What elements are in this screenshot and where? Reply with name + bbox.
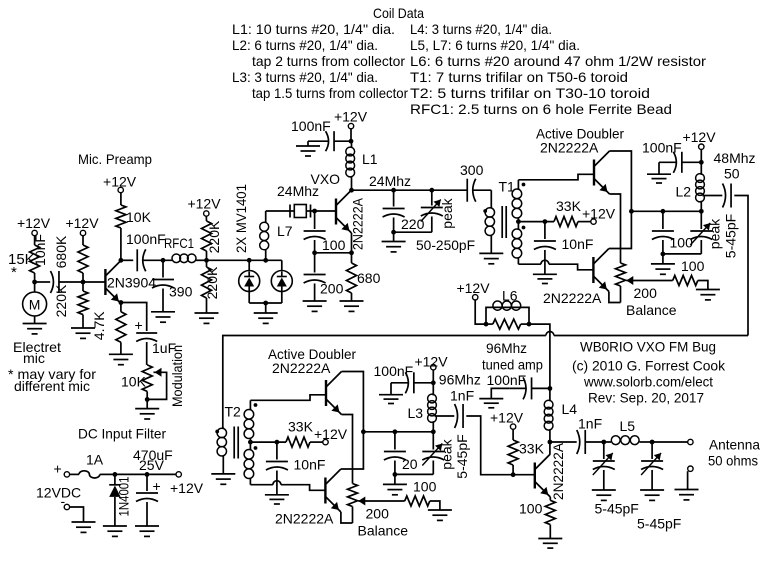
- label VXO: [311, 171, 341, 187]
- svg-text:10nF: 10nF: [562, 236, 594, 252]
- capacitor 470uF electrolytic: [136, 474, 161, 526]
- antenna terminal: [688, 439, 693, 444]
- resistor 680K: [53, 235, 88, 273]
- label 24Mhz crystal: [277, 183, 319, 199]
- label T1: [499, 179, 516, 195]
- wire + to fuse: [70, 473, 79, 475]
- node Q1 emitter: [119, 300, 124, 305]
- label Antenna 50 ohms: [708, 437, 760, 469]
- terminal DC input -: [61, 493, 70, 510]
- svg-text:tap 1.5 turns from collector: tap 1.5 turns from collector: [252, 85, 408, 101]
- power +12V terminal (680K): [65, 215, 99, 236]
- svg-text:peak: peak: [439, 197, 455, 228]
- inductor L4: [544, 388, 577, 442]
- node VXO base: [312, 209, 317, 214]
- resistor 47 ohm (L6 parallel): [486, 319, 529, 329]
- potentiometer 200 Balance (doubler 2): [348, 469, 358, 523]
- wire +12V to coil node (doubler 2): [432, 370, 434, 395]
- ground (200 cap): [303, 301, 327, 311]
- svg-text:+12V: +12V: [682, 129, 716, 145]
- pot wiper arrow (doubler 1): [626, 276, 672, 285]
- svg-text:(c) 2010 G. Forrest Cook: (c) 2010 G. Forrest Cook: [572, 358, 726, 374]
- svg-text:1nF: 1nF: [450, 388, 474, 404]
- svg-text:L2: L2: [676, 184, 692, 200]
- node VXO collector 24Mhz: [349, 188, 354, 193]
- note L2 winding data: [232, 37, 378, 53]
- node 24Mhz cap junction: [391, 188, 396, 193]
- capacitor 100nF (supply bypass) (doubler 1): [659, 152, 701, 174]
- svg-text:300: 300: [460, 162, 484, 178]
- wire 48Mhz to right edge: [734, 196, 748, 336]
- wire 220K to node: [206, 251, 208, 260]
- wire Q top emitter (doubler 2): [342, 415, 353, 470]
- svg-text:100nF: 100nF: [291, 118, 331, 134]
- label Balance (1): [626, 302, 677, 318]
- wire Q bottom emitter (doubler 1): [609, 292, 621, 303]
- svg-text:10nF: 10nF: [32, 234, 48, 266]
- node Q1 collector: [119, 258, 124, 263]
- wire 15K to mic node: [34, 273, 36, 282]
- label 96Mhz tuned amp: [482, 340, 543, 373]
- wire Q bottom emitter (doubler 2): [341, 512, 353, 523]
- note T1 winding data: [410, 69, 628, 85]
- wire collector bus (doubler 2): [363, 431, 433, 433]
- label 10K pot: [121, 374, 147, 390]
- svg-text:33K: 33K: [519, 441, 545, 457]
- svg-text:+: +: [135, 317, 143, 333]
- svg-text:220K: 220K: [206, 220, 222, 253]
- ground (amp emitter): [538, 539, 562, 549]
- svg-text:T2: T2: [225, 404, 242, 420]
- wire fuse to diode node: [100, 473, 115, 475]
- wire +12V to 220K: [205, 216, 207, 221]
- svg-text:L5, L7: 6 turns #20, 1/4" dia.: L5, L7: 6 turns #20, 1/4" dia.: [410, 37, 580, 53]
- wire to ground (varactors): [265, 303, 267, 313]
- wire to cap node: [115, 473, 147, 475]
- antenna ground terminal: [688, 466, 694, 490]
- label 100 output cap (1): [670, 235, 694, 251]
- svg-text:WB0RIO VXO FM Bug: WB0RIO VXO FM Bug: [580, 339, 716, 355]
- svg-text:+12V: +12V: [17, 215, 51, 231]
- svg-text:DC Input Filter: DC Input Filter: [78, 426, 166, 442]
- node diode junction: [113, 472, 118, 477]
- T primary phasing dot (doubler 1): [483, 209, 487, 213]
- svg-text:5-45pF: 5-45pF: [637, 516, 681, 532]
- svg-text:220K: 220K: [204, 266, 220, 299]
- node amp base: [511, 472, 516, 477]
- svg-text:1nF: 1nF: [578, 416, 602, 432]
- wire 24Mhz line: [352, 173, 468, 190]
- wire 10K to +12V: [120, 193, 122, 206]
- wire 10nF to base node: [59, 281, 83, 283]
- terminal +12V out: [170, 472, 204, 496]
- wire Q bottom collector (doubler 2): [341, 432, 364, 469]
- label 10nF (2): [294, 457, 326, 473]
- label 5-45pF (2): [454, 434, 470, 478]
- svg-text:L6: 6 turns #20 around 47 ohm: L6: 6 turns #20 around 47 ohm 1/2W resis…: [410, 53, 706, 69]
- label 2N2222A bottom (2): [275, 511, 334, 527]
- label 100nF supply (2): [374, 363, 414, 379]
- svg-text:5-45pF: 5-45pF: [454, 434, 470, 478]
- node L7 bottom: [263, 258, 268, 263]
- wire T bottom to Q base (hop) (doubler 2): [250, 481, 325, 491]
- resistor 15K: [8, 245, 40, 281]
- ground (supply bypass) (doubler 2): [379, 395, 403, 404]
- wire varactor bus: [207, 259, 282, 261]
- wire tap to 33K node (doubler 2): [250, 441, 286, 443]
- note RFC1 winding data: [410, 101, 672, 117]
- svg-text:L5: L5: [620, 418, 636, 434]
- wire L5 to antenna: [652, 441, 688, 443]
- note L2 tap data: [252, 53, 405, 69]
- svg-text:220: 220: [401, 216, 425, 232]
- trimmer 5-45pF (output) (doubler 1): [663, 211, 712, 254]
- node L6 right: [527, 322, 532, 327]
- svg-text:25V: 25V: [139, 457, 165, 473]
- ground (10nF) (doubler 1): [533, 274, 557, 283]
- ground (output) (doubler 2): [383, 484, 407, 494]
- node L5 left: [601, 440, 606, 445]
- svg-text:33K: 33K: [556, 198, 582, 214]
- wire amp collector: [549, 442, 551, 454]
- svg-text:2N3904: 2N3904: [107, 275, 156, 291]
- svg-text:tuned amp: tuned amp: [482, 357, 543, 373]
- power +12V terminal (output) (doubler 2): [431, 365, 436, 370]
- transformer T primary winding (doubler 1): [485, 207, 494, 254]
- svg-text:VXO: VXO: [311, 171, 341, 187]
- label Electret mic: [13, 339, 61, 366]
- node output ground junction (doubler 1): [661, 252, 666, 257]
- transistor Q 2N2222A (bottom) (doubler 1): [593, 249, 609, 292]
- ground (pi right): [640, 490, 664, 500]
- note L4 winding data: [410, 21, 552, 37]
- inductor L6: [486, 288, 529, 325]
- capacitor (output coupling) (doubler 2): [455, 404, 464, 428]
- label 33K (2): [288, 419, 314, 435]
- power +12V terminal (bias) (doubler 1): [591, 219, 596, 224]
- label Mic. Preamp: [78, 151, 152, 167]
- ground (390 cap): [151, 312, 175, 322]
- inductor L7: [260, 211, 293, 260]
- wire tap to output cap (doubler 2): [435, 415, 455, 417]
- note L5 L7 winding data: [410, 37, 580, 53]
- wire base node to Q: [513, 474, 535, 476]
- node varactor ground junction: [263, 301, 268, 306]
- capacitor 100nF (VXO supply): [291, 118, 351, 151]
- note coil data title: [373, 5, 424, 21]
- inductor L1: [346, 141, 378, 190]
- wire T top to Q base (doubler 1): [518, 174, 594, 180]
- ground (10nF) (doubler 2): [265, 495, 289, 504]
- wire tank to ground: [393, 232, 395, 241]
- resistor 100 (wiper) (doubler 1): [673, 276, 698, 286]
- transformer T secondary lower (doubler 1): [512, 222, 522, 265]
- svg-text:different mic: different mic: [14, 378, 90, 394]
- note L1 winding data: [232, 21, 395, 37]
- capacitor 390 (bypass): [152, 260, 193, 312]
- wire collector to C 100nF: [121, 259, 133, 261]
- varactor D1 MV1401: [239, 260, 260, 291]
- svg-text:2N2222A: 2N2222A: [540, 140, 599, 156]
- label 200 (2): [366, 506, 390, 522]
- svg-text:33K: 33K: [288, 419, 314, 435]
- title revision: [588, 390, 704, 406]
- label DC Input Filter: [78, 426, 166, 442]
- resistor 4.7K (Q1 emitter): [91, 304, 126, 355]
- label 100 wiper (1): [681, 258, 705, 274]
- power +12V terminal (VXO): [334, 109, 368, 129]
- svg-text:2N2222A: 2N2222A: [550, 442, 566, 500]
- svg-text:*: *: [11, 264, 17, 281]
- wire 100nF to RFC1 node: [144, 259, 173, 261]
- svg-text:5-45pF: 5-45pF: [595, 501, 639, 517]
- wire to +12V out: [147, 473, 176, 475]
- svg-text:20: 20: [402, 456, 418, 472]
- wire +12V to coil node (doubler 1): [700, 149, 702, 174]
- ground (VXO 100nF): [296, 146, 320, 156]
- svg-text:T2: 5 turns trifilar on T30-10: T2: 5 turns trifilar on T30-10 toroid: [410, 85, 650, 101]
- svg-text:100: 100: [322, 237, 346, 253]
- svg-text:L7: L7: [277, 223, 293, 239]
- transformer T secondary lower (doubler 2): [244, 442, 254, 485]
- node supply bypass (doubler 2): [431, 380, 436, 385]
- capacitor 300 (coupling): [460, 162, 484, 202]
- power +12V terminal (output) (doubler 1): [699, 144, 704, 149]
- svg-text:1N4001: 1N4001: [116, 476, 132, 516]
- note may vary: [8, 366, 96, 394]
- label Active Doubler (1): [536, 126, 624, 142]
- capacitor 220 (VXO tank): [383, 190, 425, 232]
- svg-text:Mic. Preamp: Mic. Preamp: [78, 151, 152, 167]
- wire 300 to T1: [474, 190, 492, 208]
- wire +12V to L6 node: [475, 300, 486, 324]
- node preamp base junction: [81, 280, 86, 285]
- node RFC1 left: [161, 258, 166, 263]
- svg-text:96Mhz: 96Mhz: [486, 340, 527, 356]
- svg-text:L3: 3 turns #20, 1/4" dia.: L3: 3 turns #20, 1/4" dia.: [232, 69, 378, 85]
- svg-text:24Mhz: 24Mhz: [369, 173, 411, 189]
- node tank ground junction: [391, 230, 396, 235]
- wire node to R 220K lower: [206, 260, 208, 267]
- transistor Q 2N2222A (top) (doubler 1): [594, 151, 610, 194]
- wire 48Mhz long run (hop): [223, 332, 748, 429]
- label L3: [408, 405, 424, 421]
- wire VXO emitter: [351, 233, 353, 253]
- svg-text:+: +: [54, 461, 62, 477]
- transistor Q1 2N3904: [105, 261, 156, 304]
- svg-text:+12V: +12V: [414, 354, 448, 370]
- node bus coil (doubler 1): [699, 209, 704, 214]
- svg-text:100: 100: [519, 501, 543, 517]
- trimmer 50-250pF: [394, 190, 443, 232]
- wire T bottom to Q base (hop) (doubler 1): [518, 260, 593, 270]
- ground (diode): [103, 526, 127, 536]
- svg-text:1A: 1A: [86, 452, 104, 468]
- label T2: [225, 404, 242, 420]
- node L1 top / 100nF: [349, 139, 354, 144]
- svg-text:Antenna: Antenna: [709, 437, 760, 453]
- capacitor (output fixed) (doubler 2): [384, 432, 406, 475]
- wire to ground (output) (doubler 2): [394, 474, 396, 484]
- note L3 tap data: [252, 85, 408, 101]
- potentiometer 200 Balance (doubler 1): [616, 249, 626, 303]
- svg-text:12VDC: 12VDC: [36, 485, 81, 501]
- svg-text:200: 200: [366, 506, 390, 522]
- label +12V bias (1): [582, 206, 616, 222]
- label 200 (1): [634, 285, 658, 301]
- node bus collector (doubler 1): [629, 209, 634, 214]
- svg-text:+12V: +12V: [490, 410, 524, 426]
- inductor L (output tank) (doubler 1): [696, 174, 705, 212]
- label 2N2222A top (1): [540, 140, 599, 156]
- svg-text:+: +: [153, 478, 161, 494]
- ground (470uF): [135, 526, 159, 536]
- power +12V terminal (bias) (doubler 2): [323, 439, 328, 444]
- label Modulation: [169, 345, 185, 407]
- node mic/15K junction: [32, 280, 37, 285]
- label 100 wiper (2): [413, 479, 437, 495]
- wire 100nF to ground: [308, 141, 329, 146]
- svg-text:M: M: [29, 297, 41, 313]
- wire to ground (output) (doubler 1): [662, 254, 664, 264]
- label 33K (1): [556, 198, 582, 214]
- label 5-45pF pi right: [637, 516, 681, 532]
- svg-text:L2: 6 turns #20, 1/4" dia.: L2: 6 turns #20, 1/4" dia.: [232, 37, 378, 53]
- resistor 33K (bias) (doubler 2): [286, 437, 310, 447]
- label Active Doubler (2): [268, 346, 356, 362]
- varactor D2 MV1401: [271, 260, 292, 291]
- wire 33K to +12V (doubler 1): [578, 221, 591, 223]
- resistor 100 (amp emitter): [519, 497, 555, 539]
- svg-text:mic: mic: [23, 350, 45, 366]
- resistor 33K (bias) (doubler 1): [554, 217, 578, 227]
- svg-text:Coil Data: Coil Data: [373, 5, 424, 21]
- ground (pi left): [592, 490, 616, 500]
- transistor Q 2N2222A tuned amp: [535, 442, 566, 500]
- capacitor (output fixed) (doubler 1): [652, 211, 674, 254]
- node 33K junction (doubler 1): [543, 219, 548, 224]
- svg-text:+12V: +12V: [103, 174, 137, 190]
- svg-text:L4: L4: [562, 401, 578, 417]
- fuse 1A: [79, 452, 104, 478]
- label 96Mhz (doubler2 out): [439, 372, 481, 388]
- svg-text:+12V: +12V: [170, 480, 204, 496]
- svg-text:680: 680: [357, 270, 381, 286]
- capacitor 100 (VXO fb1): [304, 211, 346, 253]
- resistor 220K (VXO bias upper): [202, 220, 223, 253]
- svg-text:10K: 10K: [126, 209, 152, 225]
- node T center tap (doubler 1): [516, 219, 521, 224]
- svg-text:RFC1: 2.5 turns on 6 hole Ferr: RFC1: 2.5 turns on 6 hole Ferrite Bead: [410, 101, 672, 117]
- label peak (2): [439, 438, 455, 469]
- node output ground junction (doubler 2): [393, 472, 398, 477]
- label 100nF supply (1): [642, 140, 682, 156]
- label 5-45pF (1): [723, 214, 739, 258]
- transformer T core (doubler 1): [502, 206, 506, 238]
- T secondary phasing dot lower (doubler 1): [522, 226, 526, 230]
- wire Q top collector (doubler 2): [342, 372, 364, 432]
- capacitor 1nF (amp out): [550, 416, 602, 455]
- transistor Q 2N2222A (bottom) (doubler 2): [325, 469, 341, 512]
- node varactor D1 top: [247, 258, 252, 263]
- label +12V bias (2): [314, 426, 348, 442]
- node bus cap (doubler 1): [661, 209, 666, 214]
- wire 680K to base node: [82, 273, 84, 282]
- wire Q top collector (doubler 1): [610, 151, 632, 211]
- note T2 winding data: [410, 85, 650, 101]
- svg-text:100: 100: [670, 235, 694, 251]
- wire pot to ground: [146, 399, 148, 408]
- node T center tap (doubler 2): [248, 440, 253, 445]
- svg-text:Modulation: Modulation: [169, 345, 185, 407]
- capacitor 100nF (amp supply): [487, 372, 550, 399]
- svg-text:5-45pF: 5-45pF: [723, 214, 739, 258]
- svg-text:+12V: +12V: [456, 280, 490, 296]
- T secondary phasing dot upper (doubler 1): [522, 183, 526, 187]
- ground (100 wiper) (doubler 1): [696, 290, 720, 300]
- svg-text:L1: L1: [362, 151, 378, 167]
- inductor L (output tank) (doubler 2): [428, 394, 437, 432]
- svg-text:100: 100: [681, 258, 705, 274]
- label +12V output (2): [414, 354, 448, 370]
- svg-text:220K: 220K: [53, 284, 69, 317]
- svg-text:200: 200: [634, 285, 658, 301]
- capacitor 10nF (tap bypass) (doubler 2): [266, 442, 288, 495]
- wire varactor cathodes: [249, 292, 282, 304]
- terminal DC input +: [54, 461, 70, 478]
- svg-text:10K: 10K: [121, 374, 147, 390]
- node cap junction: [145, 472, 150, 477]
- wire L1 to +12V: [350, 129, 352, 141]
- wire tap to 33K node (doubler 1): [518, 221, 554, 223]
- wire +12V to R 15K: [34, 236, 36, 245]
- title url: [583, 374, 713, 390]
- power +12V terminal (10K): [103, 174, 137, 193]
- pot wiper arrow (doubler 2): [358, 497, 404, 506]
- resistor 100 (wiper) (doubler 2): [405, 496, 430, 506]
- ground (tank): [382, 242, 406, 252]
- potentiometer 10K Modulation: [142, 365, 152, 400]
- svg-text:+12V: +12V: [187, 196, 221, 212]
- svg-text:L6: L6: [502, 288, 518, 304]
- svg-text:200: 200: [320, 281, 344, 297]
- svg-text:+12V: +12V: [314, 426, 348, 442]
- svg-text:100nF: 100nF: [642, 140, 682, 156]
- wire Q1 collector to R 10K: [120, 228, 122, 260]
- ground (amp supply): [479, 399, 503, 408]
- svg-text:4.7K: 4.7K: [91, 311, 107, 340]
- diode D1 1N4001: [109, 474, 131, 526]
- ground (220K base): [71, 328, 95, 338]
- node bus cap (doubler 2): [393, 429, 398, 434]
- power +12V terminal (220K top): [187, 196, 221, 217]
- wire tap to output cap (doubler 1): [703, 195, 723, 197]
- title copyright: [572, 358, 726, 374]
- ground (680): [340, 301, 364, 311]
- node 33K junction (doubler 2): [275, 440, 280, 445]
- resistor 680 (VXO emitter): [347, 253, 381, 301]
- svg-text:L4: 3 turns #20, 1/4" dia.: L4: 3 turns #20, 1/4" dia.: [410, 21, 552, 37]
- label 50: [724, 166, 740, 182]
- label 20 output cap (2): [402, 456, 418, 472]
- svg-text:L1: 10 turns #20, 1/4" dia.: L1: 10 turns #20, 1/4" dia.: [232, 21, 395, 37]
- label peak (1): [707, 218, 723, 249]
- svg-text:2X MV1401: 2X MV1401: [233, 184, 249, 253]
- label 2N2222A bottom (1): [543, 290, 602, 306]
- inductor L5: [611, 418, 652, 445]
- node amp collector: [548, 440, 553, 445]
- wire +12V to R 680K: [82, 236, 84, 245]
